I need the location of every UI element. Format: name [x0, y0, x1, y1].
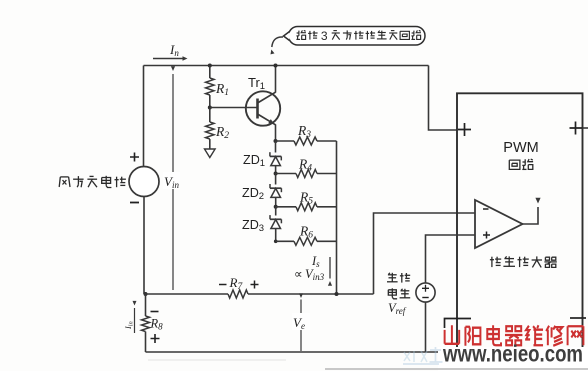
- svg-text:3: 3: [321, 29, 328, 43]
- Is arrow: [329, 257, 331, 279]
- resistor R7: [228, 290, 248, 298]
- label 风力发电机 (wind generator): [59, 177, 60, 187]
- wire R3 right lead: [317, 140, 337, 142]
- watermark faint blue marks: [404, 351, 427, 362]
- Iin arrow (left of R8): [134, 308, 136, 333]
- wire top bus (In rail): [144, 65, 429, 67]
- wire Tr1 emitter rail down: [275, 124, 277, 141]
- zener diode ZD3: [270, 218, 281, 220]
- node H (left rail / R7 wire junction): [144, 292, 148, 296]
- label + (R8 bottom polarity): [151, 334, 160, 343]
- wire error-amp plus feed: [426, 235, 476, 283]
- wire R4 right lead: [317, 173, 337, 175]
- node I (ladder rail / R7 wire junction): [335, 292, 339, 296]
- label Iin rotated (R8 current): [124, 321, 135, 330]
- wire Tr1 collector to top bus: [275, 66, 277, 93]
- resistor R5: [296, 203, 317, 211]
- PWM + terminal (top-right): [570, 122, 583, 135]
- watermark red 山阳电器维修网: [445, 325, 460, 344]
- In arrow: [153, 58, 185, 60]
- transistor Tr1 (NPN): [246, 91, 280, 125]
- node D (emitter / R3 junction): [274, 139, 278, 143]
- wire R3 left lead: [276, 140, 295, 142]
- source Vref reference voltage: [416, 283, 435, 302]
- resistor R1: [206, 78, 214, 95]
- label 电压 (voltage): [388, 290, 396, 295]
- wire R6 left lead: [276, 240, 294, 242]
- resistor R4: [296, 170, 317, 178]
- wire left rail upper (generator to top bus): [143, 66, 145, 167]
- zener diode ZD2: [270, 187, 281, 189]
- wire zd rail segment 3: [275, 174, 277, 185]
- wire R2 bottom lead: [209, 139, 211, 149]
- wire R7 line right segment: [248, 293, 374, 295]
- node E (ZD1/R4 junction): [274, 172, 278, 176]
- wire R5 right lead: [317, 206, 337, 208]
- wire left rail lower (generator to R7 node): [143, 197, 145, 295]
- node A (top bus / R1 junction): [208, 64, 212, 68]
- wire R8 to bottom bus: [145, 332, 147, 353]
- node C (collector/top bus junction): [274, 64, 278, 68]
- wire PWM right stub: [583, 127, 588, 129]
- label Vin with arrow (input voltage): [172, 74, 174, 290]
- op-amp U1 error amplifier: [475, 200, 523, 248]
- svg-text:PWM: PWM: [503, 140, 538, 156]
- wire top bus corner down to PWM: [429, 66, 458, 131]
- label Ve with arrow (error voltage): [300, 300, 302, 352]
- node B (R1/R2/base junction): [208, 106, 212, 110]
- wire zd rail segment 4: [275, 197, 277, 206]
- generator - terminal mark: [130, 202, 139, 204]
- callout curved arrow: [272, 37, 283, 47]
- wire R4 left lead: [276, 173, 296, 175]
- label - (R7 left polarity): [219, 284, 227, 286]
- wire op-amp output with up arrow: [523, 207, 539, 224]
- ground (below R2): [205, 149, 216, 158]
- generator + terminal mark: [130, 153, 139, 162]
- faint gray rule bottom right: [325, 368, 588, 370]
- block PWM box: [457, 93, 583, 352]
- label + (R7 right polarity): [251, 281, 259, 289]
- PWM - terminal (bottom-left): [445, 319, 472, 329]
- callout bubble 近似3次方特性生成回路 (cubic-law generator note): [289, 27, 426, 46]
- wire R7 line left segment: [144, 293, 228, 295]
- zener diode ZD1: [270, 155, 281, 157]
- PWM + input terminal (top-left): [458, 123, 471, 136]
- watermark white backing: [438, 347, 588, 371]
- wire Vref to bottom bus: [425, 302, 427, 352]
- wire base (node B to Tr1 base): [210, 107, 257, 109]
- wire ladder right rail: [336, 141, 338, 294]
- resistor R2: [206, 122, 214, 139]
- resistor R6: [294, 237, 317, 245]
- node G (ZD3/R6 junction): [274, 240, 278, 244]
- wire error-amp minus feed (up and right): [374, 213, 476, 294]
- wire zd rail segment 6: [275, 229, 277, 242]
- wire zd rail segment 1: [275, 141, 277, 153]
- wire left rail to R8: [145, 294, 147, 316]
- wire zd rail segment 5: [275, 207, 277, 216]
- wire bottom bus: [146, 351, 584, 353]
- node F (ZD2/R5 junction): [274, 205, 278, 209]
- label 基准 (reference): [388, 274, 397, 276]
- wire R2 top lead: [209, 108, 211, 123]
- PWM - terminal (bottom-right): [570, 317, 586, 319]
- wire R1 top lead: [209, 66, 211, 79]
- label 回路 (PWM circuit): [509, 160, 520, 169]
- wire R5 left lead: [276, 206, 296, 208]
- svg-text:www.neieo.com: www.neieo.com: [442, 341, 583, 367]
- resistor R3: [294, 137, 317, 145]
- svg-text:∝: ∝: [294, 267, 303, 281]
- wire R1 bottom lead: [209, 95, 211, 108]
- wire R6 right lead: [317, 240, 337, 242]
- label 误差放大器 (error amplifier): [491, 257, 493, 267]
- label - (R8 top polarity): [151, 311, 159, 313]
- source G1 wind generator circle: [129, 167, 159, 197]
- wire zd rail segment 2: [275, 166, 277, 174]
- resistor R8: [142, 316, 150, 332]
